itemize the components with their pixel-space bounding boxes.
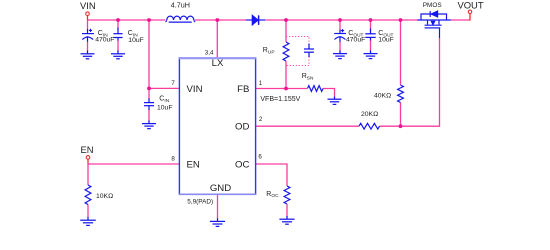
junction node 40K top [399, 18, 403, 22]
svg-text:VIN: VIN [80, 0, 96, 11]
resistor R_SN [308, 86, 324, 92]
junction node R_UP top [284, 18, 288, 22]
svg-text:VIN: VIN [187, 84, 203, 95]
wire VOUT stub [469, 13, 471, 20]
svg-text:EN: EN [81, 144, 94, 155]
junction node VIN pin tee [147, 87, 151, 91]
wire GND pin [217, 194, 219, 219]
wire C_IN3 branch [148, 88, 150, 99]
svg-text:4.7uH: 4.7uH [171, 1, 190, 10]
diode D1 [246, 15, 265, 25]
ground C_IN 470uF [81, 51, 95, 59]
wire top rail VIN to inductor [88, 19, 166, 21]
svg-text:OC: OC [235, 159, 249, 170]
wire C_OUT2 branch [370, 20, 372, 30]
svg-text:2: 2 [259, 116, 263, 123]
resistor 10K [85, 185, 91, 205]
wire VIN pin branch vertical [148, 20, 150, 88]
capacitor C_OUT 470uF electrolytic [334, 29, 346, 42]
wire C_OUT1 branch [339, 20, 341, 31]
svg-text:LX: LX [212, 58, 224, 69]
junction node C_IN2 [116, 18, 120, 22]
wire VIN pin horizontal [149, 87, 179, 89]
wire R_OC to ground [286, 204, 288, 217]
svg-text:OD: OD [235, 122, 249, 133]
junction node VIN branch [147, 18, 151, 22]
wire 10K branch [87, 164, 89, 185]
junction node OD 40K [399, 124, 403, 128]
ground 10K [80, 217, 96, 225]
svg-text:EN: EN [187, 159, 200, 170]
junction node C_OUT2 [369, 18, 373, 22]
svg-text:PMOS: PMOS [423, 2, 442, 9]
wire FB line [256, 88, 308, 90]
capacitor C_IN 10uF (pin) [144, 99, 154, 111]
svg-text:10uF: 10uF [157, 104, 173, 111]
capacitor feed-forward (optional, dashed box) [304, 44, 314, 58]
resistor 20K [359, 123, 380, 129]
svg-text:FB: FB [237, 84, 249, 95]
svg-text:VOUT: VOUT [458, 0, 484, 11]
wire LX pin vertical [216, 20, 218, 57]
ground IC GND [210, 218, 225, 226]
IC U1 body [179, 58, 255, 194]
svg-text:470uF: 470uF [346, 36, 365, 43]
svg-text:VFB=1.155V: VFB=1.155V [260, 96, 300, 103]
svg-text:RSN: RSN [302, 73, 314, 81]
ground C_IN 10uF [111, 51, 125, 59]
wire diode to PMOS source [265, 19, 418, 21]
resistor R_UP [283, 42, 289, 61]
wire R_SN right to ground [323, 89, 335, 98]
ground C_IN pin cap [142, 121, 156, 129]
wire VIN stub [87, 15, 89, 20]
inductor L1 4.7uH [165, 16, 195, 22]
svg-text:3,4: 3,4 [205, 49, 214, 56]
wire OD line right to gate [380, 38, 440, 126]
svg-text:ROC: ROC [266, 191, 279, 199]
svg-text:10uF: 10uF [378, 36, 394, 43]
svg-text:CIN: CIN [159, 96, 169, 104]
wire OC pin to R_OC [256, 164, 288, 186]
ground R_SN [328, 97, 342, 105]
svg-text:470uF: 470uF [95, 37, 114, 44]
wire PMOS drain to VOUT corner [451, 19, 470, 21]
wire OD line left [256, 125, 360, 127]
wire EN stub [87, 159, 89, 163]
resistor 40K [398, 85, 404, 103]
ground C_OUT 470uF [333, 51, 347, 59]
svg-text:10KΩ: 10KΩ [96, 193, 113, 200]
svg-text:7: 7 [171, 80, 175, 87]
junction node LX [215, 18, 219, 22]
terminal EN [86, 156, 90, 160]
svg-text:10uF: 10uF [128, 37, 144, 44]
svg-text:GND: GND [210, 183, 231, 194]
wire EN horizontal [88, 163, 179, 164]
svg-text:20KΩ: 20KΩ [361, 111, 378, 118]
svg-text:40KΩ: 40KΩ [374, 93, 391, 100]
dashed feed-forward cap branch [286, 37, 309, 45]
capacitor C_IN 10uF [113, 28, 122, 41]
wire 40K branch top [400, 20, 402, 85]
svg-text:6: 6 [258, 154, 262, 161]
ground R_OC [279, 216, 294, 224]
svg-text:5,9(PAD): 5,9(PAD) [187, 199, 213, 206]
wire C_IN1 branch [87, 20, 89, 30]
svg-text:1: 1 [259, 80, 263, 87]
terminal VIN [86, 12, 90, 16]
svg-text:RUP: RUP [263, 47, 275, 55]
wire inductor to diode [195, 19, 246, 21]
resistor R_OC [284, 186, 290, 204]
ground C_OUT 10uF [364, 51, 378, 59]
capacitor C_IN 470uF electrolytic [82, 29, 94, 42]
svg-text:8: 8 [171, 156, 175, 163]
junction node C_OUT1 [338, 18, 342, 22]
junction node FB [284, 87, 288, 91]
capacitor C_OUT 10uF [365, 29, 375, 41]
terminal VOUT [468, 10, 472, 14]
wire R_UP branch [285, 20, 287, 42]
transistor PMOS Q1 [418, 11, 451, 38]
wire C_IN2 branch [117, 20, 119, 29]
wire 40K branch bottom [400, 103, 402, 127]
